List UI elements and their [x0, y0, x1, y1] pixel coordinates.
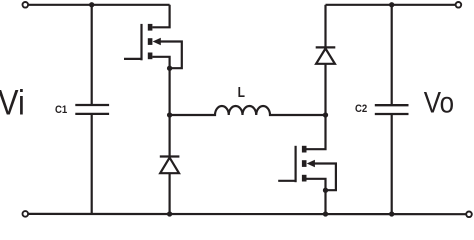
node Q2 bottom junction [323, 211, 328, 216]
node D1 bottom junction [167, 211, 172, 216]
wire Q2 source [307, 179, 326, 214]
wire D1 anode [169, 173, 171, 214]
wire node A to D1 [169, 115, 171, 157]
wire C2 top [391, 5, 393, 105]
node A [167, 112, 172, 117]
wire Q2 body [313, 164, 336, 191]
diode D2 [316, 47, 336, 63]
wire D2 cathode [324, 5, 326, 48]
diode D1 [160, 157, 180, 174]
wire Q1 drain [152, 5, 169, 28]
node Q1 source-body junction [167, 66, 172, 71]
wire top rail right [326, 4, 456, 6]
terminal Vo- [466, 212, 472, 218]
svg-text:C1: C1 [55, 104, 67, 116]
transistor Q1 [124, 24, 161, 60]
svg-text:Vo: Vo [424, 86, 454, 119]
node B [323, 112, 328, 117]
wire bottom rail [28, 213, 465, 216]
svg-text:C2: C2 [355, 103, 367, 115]
node output top junction [389, 2, 394, 7]
inductor L [170, 106, 326, 115]
capacitor C2 [375, 105, 409, 114]
wire C1 top [91, 5, 93, 105]
transistor Q2 [278, 146, 315, 182]
wire Q2 drain [307, 115, 326, 149]
wire node B to D2 [324, 64, 326, 115]
terminal Vi- [23, 211, 29, 217]
wire Q1 source [152, 57, 169, 115]
svg-text:Vi: Vi [0, 82, 25, 121]
node C2 bottom junction [389, 211, 394, 216]
terminal Vo+ [456, 2, 462, 8]
node Q2 source-body junction [323, 188, 328, 193]
wire C2 bottom [391, 114, 393, 214]
wire top rail left [28, 4, 169, 6]
terminal Vi+ [23, 2, 29, 8]
svg-text:L: L [238, 84, 245, 101]
wire Q1 body [159, 42, 182, 69]
wire C1 bottom [91, 114, 93, 214]
capacitor C1 [75, 105, 109, 114]
node input top junction [89, 2, 94, 7]
